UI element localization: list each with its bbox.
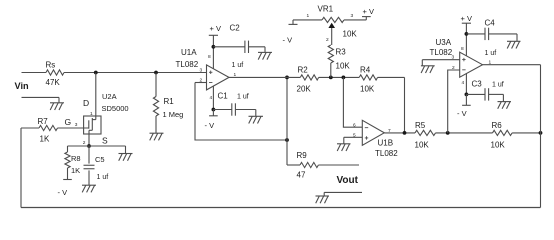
wire U1A output xyxy=(229,76,300,78)
svg-text:R2: R2 xyxy=(298,66,309,75)
svg-text:- V: - V xyxy=(457,109,467,118)
svg-text:+ V: + V xyxy=(210,24,221,33)
svg-text:C1: C1 xyxy=(218,92,229,101)
node R2 tap on output bus xyxy=(285,76,289,80)
node U3A pin2 tap xyxy=(446,131,450,135)
pin 3 label (VR1) xyxy=(351,13,354,19)
wire left riser xyxy=(20,128,22,208)
pin 7 label (U1B) xyxy=(388,128,391,134)
svg-text:1 uf: 1 uf xyxy=(485,50,497,57)
pin 3 label (U1A) xyxy=(200,68,203,74)
svg-text:3: 3 xyxy=(351,13,354,19)
node source junction xyxy=(87,144,91,148)
svg-text:1 Meg: 1 Meg xyxy=(163,110,184,119)
svg-text:- V: - V xyxy=(283,36,293,45)
capacitor C1 1 uf xyxy=(213,92,255,116)
svg-text:R6: R6 xyxy=(492,121,503,130)
ground (C2) xyxy=(258,47,272,60)
capacitor C4 1 uf xyxy=(466,19,517,58)
svg-text:R1: R1 xyxy=(164,97,175,106)
svg-text:8: 8 xyxy=(208,54,211,60)
svg-text:4: 4 xyxy=(210,95,213,101)
wire U1B pin6 riser xyxy=(343,77,362,127)
svg-text:2: 2 xyxy=(452,65,455,71)
capacitor C3 1 uf xyxy=(466,80,503,101)
svg-text:1 uf: 1 uf xyxy=(237,94,249,101)
ground (U1B pin5) xyxy=(337,137,351,151)
resistor R8 1K xyxy=(65,146,81,175)
wire R9 to Vout xyxy=(318,164,359,166)
wire U3A pin8 xyxy=(465,34,467,56)
wire VR1 left xyxy=(293,19,322,21)
wire source bus xyxy=(68,145,126,147)
svg-text:Rs: Rs xyxy=(46,61,56,70)
wire R4 to feedback corner xyxy=(378,76,405,78)
ground (U3A pin3) xyxy=(421,60,435,73)
wire drain xyxy=(95,73,97,120)
power +V (U3A) xyxy=(461,14,472,34)
node C3 junction xyxy=(465,93,469,97)
svg-text:3: 3 xyxy=(200,68,203,74)
pin 1 label (U3A) xyxy=(489,60,492,66)
pin 8 label (U1A) xyxy=(208,54,211,60)
pin 1 label (drain) xyxy=(90,111,93,117)
svg-text:C5: C5 xyxy=(95,155,105,164)
wire feedback riser to R2 xyxy=(286,77,288,140)
svg-text:47: 47 xyxy=(297,171,306,180)
pin 4 label (U3A) xyxy=(462,80,465,86)
wire Vin ground stub xyxy=(22,96,60,98)
svg-text:4: 4 xyxy=(462,80,465,86)
power +V (VR1) xyxy=(362,7,374,20)
svg-text:10K: 10K xyxy=(360,85,375,94)
label S (source) xyxy=(102,136,108,146)
pin 6 label (U1B) xyxy=(353,122,356,128)
svg-text:- V: - V xyxy=(58,188,68,197)
pin 1 label (U1A) xyxy=(234,72,237,78)
wire R4 feedback riser xyxy=(404,77,406,132)
node drain junction on input wire xyxy=(94,71,98,75)
wire riser to R7 xyxy=(21,127,39,129)
svg-text:C2: C2 xyxy=(230,24,241,33)
wire U3A output xyxy=(483,64,541,66)
svg-text:6: 6 xyxy=(353,122,356,128)
node C1 junction xyxy=(212,108,216,112)
svg-text:10K: 10K xyxy=(343,30,358,39)
svg-text:VR1: VR1 xyxy=(318,5,334,14)
power +V (U1A) xyxy=(209,24,221,47)
svg-text:R3: R3 xyxy=(336,48,347,57)
wire VR1 right xyxy=(344,19,366,21)
node R4 feedback junction xyxy=(403,131,407,135)
svg-text:Vin: Vin xyxy=(15,81,30,91)
wire Vout ground stub xyxy=(324,191,362,193)
svg-text:20K: 20K xyxy=(297,85,312,94)
svg-text:TL082: TL082 xyxy=(375,149,398,158)
svg-text:3: 3 xyxy=(75,122,78,128)
potentiometer VR1 10K xyxy=(318,5,358,46)
power -V (VR1) xyxy=(283,20,298,45)
svg-text:C3: C3 xyxy=(472,80,483,89)
wire U1A pin4 xyxy=(212,86,214,110)
svg-text:2: 2 xyxy=(200,78,203,84)
wire right riser xyxy=(540,65,542,208)
ground (Vout reference) xyxy=(316,192,330,203)
svg-text:R9: R9 xyxy=(297,151,308,160)
svg-text:TL082: TL082 xyxy=(430,48,453,57)
pin 4 label (U1A) xyxy=(210,95,213,101)
svg-text:+ V: + V xyxy=(461,14,472,23)
svg-text:10K: 10K xyxy=(336,62,351,71)
wire U3A pin4 xyxy=(465,73,467,94)
ground (C5) xyxy=(82,185,96,192)
svg-text:R8: R8 xyxy=(71,154,81,163)
svg-text:2: 2 xyxy=(83,140,86,146)
pin 2 label (U3A) xyxy=(452,65,455,71)
pin 2 label (U1A) xyxy=(200,78,203,84)
resistor R6 10K xyxy=(491,121,513,150)
wire R7 to gate xyxy=(58,127,89,129)
svg-text:+ V: + V xyxy=(363,7,374,16)
power -V (R8) xyxy=(58,168,72,197)
pin 2 label (source) xyxy=(83,140,86,146)
ground (C1) xyxy=(249,110,264,124)
wire U1A pin8 xyxy=(212,47,214,69)
wire U1B pin5 stub xyxy=(344,136,363,138)
wire U1B output bus xyxy=(384,132,415,134)
node C4 junction xyxy=(465,32,469,36)
resistor R4 10K xyxy=(359,66,377,94)
svg-text:5: 5 xyxy=(353,132,356,138)
svg-text:1 uf: 1 uf xyxy=(232,62,244,69)
svg-text:10K: 10K xyxy=(491,141,506,150)
op-amp U1B TL082 xyxy=(362,120,398,158)
svg-text:1K: 1K xyxy=(40,135,50,144)
svg-text:U1A: U1A xyxy=(181,48,197,57)
resistor R3 10K xyxy=(328,45,350,77)
svg-text:1 uf: 1 uf xyxy=(492,82,504,89)
wire feedback to R9 xyxy=(287,140,300,165)
wire U3A pin2 riser xyxy=(448,70,460,133)
label G (gate) xyxy=(65,117,72,127)
ground (source bus) xyxy=(119,146,133,161)
svg-text:TL082: TL082 xyxy=(176,60,199,69)
svg-text:1: 1 xyxy=(90,111,93,117)
svg-text:U1B: U1B xyxy=(378,139,394,148)
capacitor C5 1 uf xyxy=(84,146,109,185)
wire source xyxy=(88,130,90,146)
op-amp U1A TL082 xyxy=(176,48,230,90)
svg-text:D: D xyxy=(83,98,89,108)
svg-text:G: G xyxy=(65,117,72,127)
svg-text:R4: R4 xyxy=(360,66,371,75)
ground (R1) xyxy=(150,133,164,140)
svg-text:S: S xyxy=(102,136,108,146)
wire R2 to R4 xyxy=(319,76,360,78)
resistor Rs 47K xyxy=(46,61,65,88)
node U1B pin6 tap xyxy=(342,76,346,80)
op-amp U3A TL082 xyxy=(430,38,483,77)
svg-text:10K: 10K xyxy=(415,141,430,150)
svg-text:- V: - V xyxy=(205,121,215,130)
node Vout terminal xyxy=(337,175,359,186)
svg-text:1 uf: 1 uf xyxy=(97,174,109,181)
label D (drain) xyxy=(83,98,89,108)
pin 5 label (U1B) xyxy=(353,132,356,138)
ground (C3) xyxy=(498,94,512,108)
svg-text:1K: 1K xyxy=(71,166,80,175)
pin 3 label (U3A) xyxy=(452,55,455,61)
svg-text:R5: R5 xyxy=(415,121,426,130)
svg-text:U3A: U3A xyxy=(436,38,452,47)
wire U1A pin2 stub xyxy=(195,82,207,84)
pin 1 label (VR1) xyxy=(307,13,310,19)
power -V (U1A) xyxy=(205,110,218,131)
wire R5 to R6 xyxy=(436,132,493,134)
pin 3 label (gate) xyxy=(75,122,78,128)
wire Rs to U1A pin3 xyxy=(64,72,207,74)
power -V (U3A) xyxy=(457,94,471,118)
transistor U2A SD5000 xyxy=(84,92,129,134)
svg-text:U2A: U2A xyxy=(102,92,117,101)
svg-text:47K: 47K xyxy=(46,78,61,87)
node U3A output junction xyxy=(539,131,543,135)
svg-text:Vout: Vout xyxy=(337,175,359,186)
wire R6 to output riser xyxy=(512,132,540,134)
resistor R2 20K xyxy=(297,66,319,94)
ground (input reference) xyxy=(50,97,64,110)
wire U1A pin2 feedback xyxy=(195,83,287,141)
wire bottom feedback xyxy=(21,207,541,209)
svg-text:R7: R7 xyxy=(38,117,49,126)
svg-text:C4: C4 xyxy=(485,19,496,28)
pin 8 label (U3A) xyxy=(461,46,464,52)
svg-text:8: 8 xyxy=(461,46,464,52)
resistor R5 10K xyxy=(415,121,436,150)
wire U3A pin3 stub xyxy=(422,59,459,61)
node R3 junction xyxy=(329,76,333,80)
node Vin terminal / wire Vin to Rs xyxy=(15,73,47,92)
node R1 junction on input wire xyxy=(154,71,158,75)
capacitor C2 1 uf xyxy=(213,24,265,70)
ground (C4) xyxy=(507,34,521,49)
node feedback junction xyxy=(285,138,289,142)
resistor R7 1K xyxy=(38,117,58,144)
svg-text:SD5000: SD5000 xyxy=(102,104,129,113)
svg-text:2: 2 xyxy=(326,37,329,43)
resistor R1 1 Meg xyxy=(153,73,183,134)
resistor R9 47 xyxy=(297,151,319,180)
svg-text:1: 1 xyxy=(307,13,310,19)
node C2 junction xyxy=(212,45,216,49)
pin 2 label (VR1) xyxy=(326,37,329,43)
